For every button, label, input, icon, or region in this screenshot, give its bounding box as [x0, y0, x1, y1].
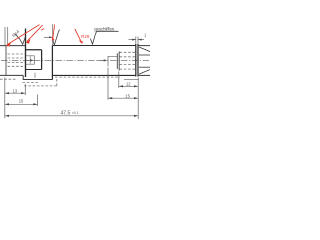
svg-text:Rz6: Rz6 — [81, 34, 90, 39]
svg-text:±0.1: ±0.1 — [72, 111, 79, 115]
svg-text:47.5: 47.5 — [61, 111, 71, 117]
svg-text:15: 15 — [125, 93, 130, 98]
svg-text:15: 15 — [19, 98, 24, 103]
svg-text:12: 12 — [126, 82, 131, 87]
svg-text:13: 13 — [13, 88, 18, 93]
svg-text:geschliffen: geschliffen — [94, 26, 115, 31]
